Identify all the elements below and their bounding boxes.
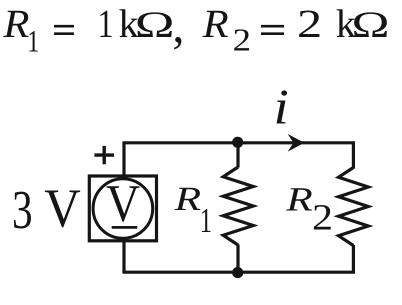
svg-text:V: V	[106, 175, 140, 233]
title equals sign 1	[54, 26, 74, 34]
svg-text:Ω: Ω	[135, 4, 175, 46]
wire R1 bottom lead	[236, 245, 239, 272]
svg-text:2: 2	[233, 22, 251, 58]
voltage source V underline	[112, 226, 138, 229]
wire source top lead	[122, 144, 125, 177]
wire top rail	[122, 141, 355, 144]
resistor R1 zigzag	[223, 167, 253, 245]
svg-text:,: ,	[172, 0, 184, 53]
title unit Ohm (first)	[135, 4, 175, 46]
svg-text:R: R	[202, 1, 229, 46]
node dot bottom junction	[232, 267, 243, 278]
svg-text:2: 2	[297, 1, 322, 46]
plus polarity mark	[94, 146, 114, 164]
voltage source V1 box	[89, 176, 156, 241]
svg-text:1: 1	[98, 1, 114, 46]
current arrow head	[288, 134, 305, 152]
svg-text:1: 1	[200, 201, 212, 240]
svg-text:R: R	[173, 181, 201, 218]
svg-text:2: 2	[312, 198, 333, 239]
resistor R2 zigzag	[339, 168, 369, 246]
voltage source V1 circle	[93, 179, 153, 239]
wire bottom rail	[122, 271, 355, 274]
wire R2 top lead	[352, 144, 355, 169]
title equals sign 2	[261, 26, 284, 34]
svg-text:1: 1	[27, 23, 39, 58]
svg-text:Ω: Ω	[352, 4, 390, 46]
svg-text:R: R	[285, 181, 313, 218]
wire R1 top lead	[236, 144, 239, 168]
svg-text:i: i	[274, 79, 289, 135]
node dot top junction	[232, 137, 243, 148]
svg-text:R: R	[2, 1, 29, 46]
svg-text:3: 3	[12, 179, 33, 240]
svg-text:V: V	[44, 178, 81, 239]
wire source bottom lead	[122, 240, 125, 271]
title unit Ohm (second)	[352, 4, 390, 46]
wire R2 bottom lead	[352, 245, 355, 272]
